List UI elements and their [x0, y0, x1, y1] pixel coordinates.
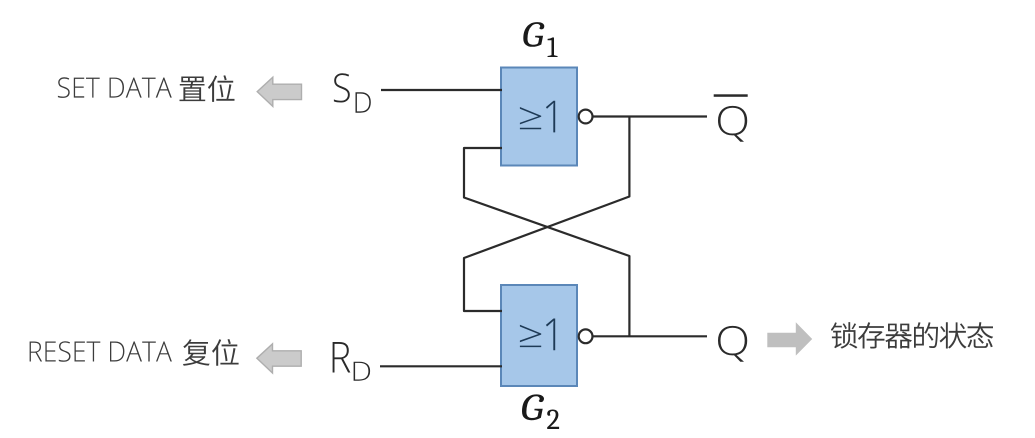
- label G1: [523, 22, 557, 57]
- input label S_D: [334, 73, 371, 112]
- gate G2 function label ≥1: [520, 319, 555, 351]
- wire feedback: G2 output branch to G1 lower input (crossing): [464, 148, 629, 336]
- wire G2 output to node Q: [593, 335, 708, 337]
- block arrow left (set): [257, 77, 301, 106]
- overline of Q-bar: [714, 94, 748, 97]
- gate G2 (IEC NOR, bottom): [501, 285, 577, 386]
- gate G1 (IEC NOR, top): [501, 68, 577, 166]
- annotation text RESET DATA 复位: [30, 339, 239, 366]
- block arrow left (reset): [257, 344, 301, 373]
- wire feedback: G1 output branch to G2 upper input (crossing): [464, 117, 629, 312]
- wire R_D input to G2: [380, 365, 502, 367]
- wire G1 output to node Q-bar: [593, 115, 708, 117]
- gate G1 function label ≥1: [520, 101, 555, 133]
- wire S_D input to G1: [381, 89, 502, 91]
- annotation text SET DATA 置位: [58, 75, 235, 102]
- label G2: [522, 394, 559, 429]
- block arrow right (latch state): [767, 322, 812, 355]
- inversion bubble G2: [579, 329, 593, 343]
- input label R_D: [333, 342, 371, 381]
- annotation text 锁存器的状态: [831, 322, 993, 349]
- output label Q-bar (letter): [718, 106, 747, 142]
- output label Q (letter): [718, 326, 747, 362]
- inversion bubble G1: [579, 110, 593, 124]
